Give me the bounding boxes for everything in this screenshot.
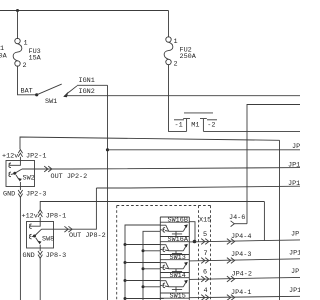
- wire row JP4-4: [189, 240, 300, 242]
- connector chevrons JP8-2: [64, 226, 72, 232]
- wire drop to JP4-4 row: [263, 202, 265, 241]
- wire top bus: [0, 10, 169, 12]
- svg-text:4: 4: [204, 287, 208, 295]
- svg-text:7: 7: [204, 250, 208, 258]
- svg-text:2: 2: [23, 62, 27, 70]
- svg-text:-1: -1: [175, 121, 183, 129]
- dashed module box edge top: [117, 205, 211, 207]
- switch SW2 box: [6, 161, 35, 187]
- wire GND JP8 drop: [39, 258, 41, 300]
- svg-text:JP4-3: JP4-3: [231, 251, 251, 259]
- svg-text:+12v: +12v: [2, 153, 18, 161]
- svg-text:SW13: SW13: [170, 254, 186, 262]
- svg-text:2: 2: [174, 61, 178, 69]
- pin 7 chevrons: [201, 258, 209, 264]
- connector chevrons JP2-2: [44, 166, 52, 172]
- transistor SW16A: [160, 236, 189, 256]
- node IGN1 tap: [106, 148, 109, 151]
- svg-text:M1: M1: [191, 121, 199, 129]
- wire M1 output to right edge: [203, 130, 300, 132]
- svg-text:BAT: BAT: [21, 88, 33, 96]
- svg-text:OUT JP8-2: OUT JP8-2: [69, 232, 106, 240]
- node busA SW16A: [124, 243, 127, 246]
- svg-text:SW16B: SW16B: [168, 217, 188, 225]
- svg-text:SW15: SW15: [170, 293, 186, 300]
- wire row JP4-2: [189, 277, 300, 279]
- wire IGN1 vertical drop: [107, 85, 109, 300]
- svg-text:JP1: JP1: [289, 287, 300, 295]
- svg-text:JP4-4: JP4-4: [231, 233, 251, 241]
- svg-text:IGN1: IGN1: [79, 77, 95, 85]
- svg-text:1: 1: [24, 40, 28, 48]
- svg-text:JP1: JP1: [288, 162, 300, 170]
- svg-text:JP: JP: [291, 231, 299, 239]
- fuse FU2: [164, 37, 197, 69]
- switch SW8 box: [27, 222, 54, 249]
- wire BAT lead: [18, 66, 37, 95]
- svg-text:OUT JP2-2: OUT JP2-2: [51, 173, 88, 181]
- node busB SW13: [142, 249, 145, 252]
- svg-text:1: 1: [174, 38, 178, 46]
- connector JP2-3: [3, 187, 46, 199]
- connector JP2-1: [2, 150, 46, 161]
- svg-text:SW2: SW2: [23, 175, 35, 183]
- svg-text:JP: JP: [291, 268, 299, 276]
- svg-text:JP1: JP1: [288, 180, 300, 188]
- svg-text:JP: JP: [292, 143, 300, 151]
- svg-text:SW8: SW8: [42, 236, 54, 244]
- wire bus B: [143, 231, 160, 300]
- node BAT: [35, 93, 38, 96]
- node busA SW13: [124, 261, 127, 264]
- svg-text:JP1: JP1: [289, 250, 300, 258]
- wire GND JP2 drop: [19, 197, 21, 300]
- wire +12v long line to JP2: [20, 137, 280, 149]
- switch SW1 throw arrow: [63, 92, 68, 98]
- svg-text:JP8-1: JP8-1: [46, 213, 66, 221]
- wire IGN2: [64, 95, 300, 97]
- wire to right edge JP: [108, 149, 301, 151]
- svg-text:SW1: SW1: [45, 98, 57, 106]
- svg-text:-2: -2: [207, 121, 215, 129]
- transistor SW13: [160, 254, 189, 274]
- wire SW16B collector: [189, 222, 195, 242]
- node row5: [193, 240, 197, 244]
- connector X15 dashed column: [198, 206, 200, 300]
- pin 4 chevrons: [201, 295, 209, 300]
- motor M1: [174, 113, 217, 131]
- connector JP8-1: [22, 210, 67, 222]
- svg-text:JP2-3: JP2-3: [26, 191, 46, 199]
- svg-text:JP4-1: JP4-1: [231, 289, 251, 297]
- svg-text:250A: 250A: [180, 53, 197, 61]
- wire right box edge drop: [279, 140, 281, 300]
- switch SW1 blade: [37, 84, 62, 95]
- node busA SW14: [124, 279, 127, 282]
- node busB SW14: [142, 267, 145, 270]
- svg-text:6: 6: [203, 269, 207, 277]
- wire row JP4-3: [189, 259, 300, 261]
- svg-text:0A: 0A: [0, 53, 8, 61]
- wire row JP4-1: [189, 296, 300, 297]
- svg-text:IGN2: IGN2: [79, 88, 95, 96]
- node junction top: [16, 9, 19, 12]
- fuse FU3: [13, 38, 42, 70]
- wire IGN1: [77, 84, 108, 86]
- node busB SW15: [142, 285, 145, 288]
- wire +12v feed line JP8: [40, 202, 264, 210]
- wire FU2 to M1: [169, 64, 187, 131]
- svg-text:JP4-2: JP4-2: [232, 270, 252, 278]
- svg-text:SW14: SW14: [170, 272, 186, 280]
- svg-text:JP8-3: JP8-3: [46, 252, 66, 260]
- wire FU2 lead top: [168, 11, 170, 38]
- wire bus A: [125, 225, 160, 300]
- svg-text:15A: 15A: [29, 55, 42, 63]
- pin 6 chevrons: [201, 276, 209, 282]
- transistor SW16B: [160, 217, 189, 237]
- svg-text:JP2-1: JP2-1: [26, 153, 46, 161]
- node busA SW15: [124, 297, 127, 300]
- svg-text:X15: X15: [199, 217, 211, 225]
- svg-text:GND: GND: [23, 252, 35, 260]
- connector JP8-3: [23, 248, 67, 260]
- transistor SW14: [160, 272, 189, 292]
- dashed module box edge left: [116, 206, 118, 300]
- wire J4-6 feed from right edge: [247, 105, 300, 224]
- svg-text:GND: GND: [3, 191, 15, 199]
- wire OUT JP2-2: [22, 168, 300, 169]
- wire FU3 lead top: [17, 11, 19, 40]
- svg-text:J4-6: J4-6: [229, 214, 245, 222]
- pin 5 chevrons: [201, 239, 209, 245]
- wire JP1 mid row: [96, 186, 300, 188]
- transistor stack outline: [160, 217, 189, 300]
- svg-text:5: 5: [203, 231, 207, 239]
- svg-text:+12v: +12v: [22, 213, 38, 221]
- transistor SW15: [160, 293, 189, 300]
- svg-text:SW16A: SW16A: [168, 236, 189, 244]
- wire OUT JP8-2: [42, 188, 97, 229]
